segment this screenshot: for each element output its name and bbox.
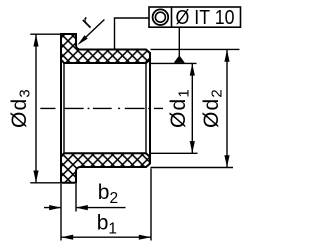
leader from frame bottom to d1 extension: [178, 27, 180, 57]
extension line d3 top: [30, 33, 61, 35]
right bore chamfer edge: [145, 63, 147, 153]
left end face line (through bore): [60, 34, 62, 183]
centerline: [40, 107, 163, 109]
bushing lower section (hatched): [61, 153, 150, 183]
arrow b1 right: [139, 235, 151, 240]
arrow d2 bottom: [224, 155, 229, 167]
left bore chamfer edge: [63, 63, 65, 153]
extension line d2 top: [151, 48, 240, 50]
arrow d3 top: [33, 35, 38, 47]
arrow b1 left: [61, 235, 73, 240]
dimension line d1: [191, 63, 193, 153]
extension line d1 bottom: [151, 152, 198, 154]
leader from frame left to sleeve surface: [115, 18, 150, 49]
label Ø d1: [167, 88, 193, 128]
tolerance frame divider: [171, 7, 173, 27]
svg-text:Ø IT 10: Ø IT 10: [176, 6, 235, 29]
concentricity symbol outer circle: [153, 9, 169, 25]
extension line b1 right (sleeve end, down): [150, 169, 152, 241]
tolerance frame box: [149, 7, 241, 27]
extension line b2 right (flange right face, down): [75, 184, 77, 212]
extension line d3 bottom: [30, 182, 61, 184]
r arrow: [77, 35, 87, 45]
label Ø d2: [200, 88, 226, 128]
r leader line: [82, 20, 105, 42]
dimension line b2 (outside arrows): [44, 207, 61, 209]
bushing upper section (hatched): [61, 34, 150, 63]
concentricity symbol inner circle: [155, 12, 165, 22]
label Ø d3: [8, 88, 34, 128]
leader triangle on d1 extension line: [174, 55, 185, 63]
dimension line b1: [61, 236, 151, 238]
arrow d3 bottom: [33, 171, 38, 183]
arrow b2 left: [49, 205, 61, 210]
extension line b left (flange left face, down): [60, 184, 62, 241]
extension line d2 bottom: [151, 167, 234, 169]
arrow d1 top: [190, 64, 195, 76]
arrow d2 top: [224, 50, 229, 62]
arrow b2 right: [76, 205, 88, 210]
dimension line d2: [226, 50, 228, 168]
extension line d1 top: [151, 62, 197, 64]
dimension line d3: [35, 34, 37, 183]
arrow d1 bottom: [190, 141, 195, 153]
right end face line (through bore): [149, 53, 151, 164]
